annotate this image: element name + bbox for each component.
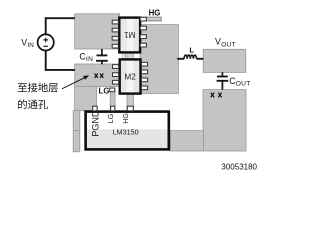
svg-text:LG: LG (99, 87, 110, 96)
svg-text:30053180: 30053180 (221, 162, 257, 171)
svg-text:PGND: PGND (91, 110, 101, 137)
svg-text:LG: LG (107, 114, 115, 123)
svg-text:L: L (189, 46, 194, 55)
svg-text:LM3150: LM3150 (113, 127, 139, 136)
svg-text:HG: HG (122, 113, 130, 124)
svg-text:M2: M2 (124, 72, 136, 81)
svg-text:M1: M1 (124, 30, 136, 39)
svg-text:HG: HG (149, 8, 161, 17)
